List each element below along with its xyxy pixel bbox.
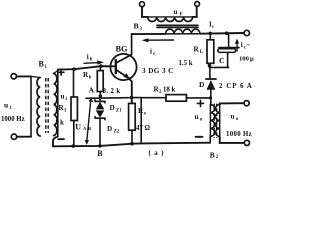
svg-text:1 k: 1 k [55,120,64,127]
svg-text:B: B [97,149,103,158]
svg-text:BG: BG [116,45,129,54]
svg-text:A: A [89,86,95,95]
svg-text:i: i [150,47,152,55]
svg-text:1000 Hz: 1000 Hz [1,116,25,123]
svg-text:F: F [180,13,183,18]
svg-text:1.5 k: 1.5 k [179,60,193,67]
svg-text:u: u [61,92,65,100]
svg-text:e: e [144,112,146,117]
svg-text:18 k: 18 k [163,87,175,94]
svg-text:i: i [87,53,89,61]
svg-text:D: D [199,80,205,89]
svg-text:Z1: Z1 [116,108,122,113]
svg-text:2 CP 6 A: 2 CP 6 A [219,82,253,90]
svg-text:Ω: Ω [145,125,151,132]
svg-text:μ: μ [250,55,254,62]
svg-text:3 DG 3 C: 3 DG 3 C [142,67,174,75]
svg-text:i: i [241,41,243,49]
svg-text:47: 47 [136,125,143,132]
svg-text:B: B [134,22,139,31]
svg-text:u: u [231,113,235,121]
svg-text:( a ): ( a ) [149,150,165,157]
svg-text:D: D [107,125,112,133]
svg-text:C: C [219,56,225,65]
svg-text:1000 Hz: 1000 Hz [226,131,252,138]
svg-text:B: B [88,126,91,131]
svg-text:D: D [110,104,115,112]
svg-text:u: u [4,101,8,110]
svg-text:b: b [90,58,93,63]
svg-text:u: u [195,113,199,121]
svg-text:100: 100 [239,55,250,62]
svg-text:u: u [174,8,178,16]
svg-text:Z2: Z2 [114,129,120,134]
svg-text:R: R [194,46,200,54]
svg-text:U: U [75,122,81,131]
svg-text:8. 2 k: 8. 2 k [103,88,121,95]
svg-text:B: B [210,150,215,158]
svg-text:b: b [89,75,92,80]
svg-text:L: L [200,49,204,55]
